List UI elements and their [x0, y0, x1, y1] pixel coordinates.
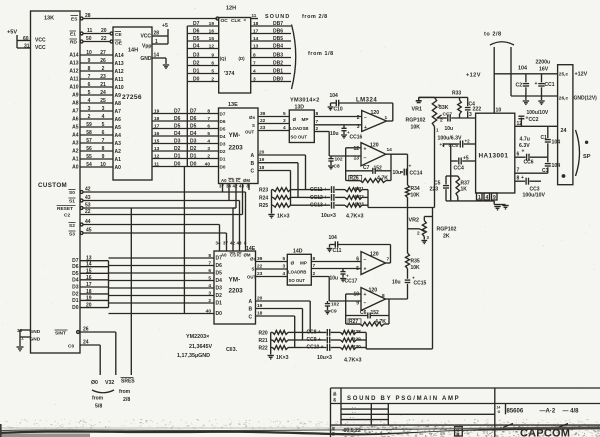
svg-text:R28: R28 — [352, 329, 361, 335]
title small cell A — [455, 427, 463, 437]
svg-text:40: 40 — [206, 309, 212, 315]
svg-text:16: 16 — [209, 29, 215, 35]
svg-text:S: S — [252, 123, 255, 128]
wire C0 pin24 to Phi0 — [68, 340, 100, 376]
svg-text:A0: A0 — [72, 165, 79, 171]
svg-text:58: 58 — [86, 130, 92, 136]
wire YM2203-13E OUT pin23 to YM3014-13D pin4 — [258, 125, 289, 131]
svg-text:22: 22 — [257, 264, 263, 270]
svg-text:R25: R25 — [259, 203, 268, 209]
wire RD pin50 to 27256 OE pin22 — [70, 36, 123, 47]
svg-text:MP: MP — [300, 261, 307, 266]
svg-text:GND: GND — [30, 337, 41, 343]
svg-text:104: 104 — [330, 93, 339, 99]
svg-text:DB0: DB0 — [273, 77, 283, 83]
svg-text:R30: R30 — [352, 344, 361, 350]
svg-text:OE: OE — [115, 41, 123, 47]
svg-text:85606: 85606 — [507, 409, 524, 415]
svg-text:A6: A6 — [115, 117, 122, 123]
wire mixer bus to pin3 rail — [419, 97, 468, 100]
svg-text:+: + — [364, 125, 367, 131]
connector brace to sheet 1/8 — [292, 25, 296, 90]
svg-text:A2: A2 — [72, 149, 79, 155]
svg-text:CC17: CC17 — [345, 279, 358, 285]
scan noise speckle in title strip — [342, 426, 600, 437]
svg-text:D5: D5 — [190, 124, 197, 130]
svg-text:10: 10 — [100, 162, 106, 168]
svg-text:2: 2 — [208, 298, 211, 304]
svg-text:26: 26 — [100, 58, 106, 64]
svg-text:YM-: YM- — [229, 132, 241, 139]
svg-text:R32: R32 — [355, 194, 364, 200]
svg-text:120: 120 — [369, 288, 378, 294]
svg-text:40: 40 — [205, 162, 211, 168]
svg-text:D4: D4 — [193, 44, 200, 50]
svg-text:+2: +2 — [465, 139, 471, 144]
svg-text:39: 39 — [260, 111, 266, 117]
svg-text:LOAD: LOAD — [290, 126, 302, 131]
svg-text:11: 11 — [87, 28, 93, 34]
svg-text:104: 104 — [552, 163, 561, 169]
op-amp U12D-C 120 — [356, 245, 390, 275]
wire data D3 27256 pin 15 to YM2203-13E pin 4 — [152, 139, 219, 145]
svg-text:A11: A11 — [70, 77, 79, 83]
wire SRES vertical to RESET row — [130, 208, 132, 375]
wire YM2203-14E OUT pin23 to YM3014-14D pin4 — [256, 271, 288, 277]
svg-text:14: 14 — [387, 147, 393, 153]
svg-text:A12: A12 — [69, 69, 78, 75]
svg-text:+: + — [409, 165, 412, 170]
resistor R25 1K and capacitor CC13 10u and resistor R33 4.7K mixer row — [259, 202, 368, 210]
wire YM2203-14E pin22 to YM3014-14D pin3 — [256, 264, 288, 270]
svg-text:VCC: VCC — [35, 38, 46, 44]
svg-text:B: B — [251, 161, 255, 167]
node mixer1 right common to VR1 — [368, 190, 435, 208]
svg-text:2: 2 — [102, 66, 105, 72]
capacitor CC2 100u/10V on output — [518, 110, 548, 126]
svg-text:D3: D3 — [190, 139, 197, 145]
wire vertical common left of HA13001 — [450, 144, 452, 201]
note from 2/8 — [302, 14, 328, 20]
svg-text:2: 2 — [88, 114, 91, 120]
svg-text:18: 18 — [257, 311, 263, 317]
svg-text:5: 5 — [211, 69, 214, 75]
svg-text:21,3645V: 21,3645V — [189, 344, 212, 350]
svg-text:4.7u: 4.7u — [520, 137, 530, 143]
svg-text:C6: C6 — [360, 310, 367, 316]
wire data D2 CUSTOM pin 18 to YM2203-14E pin 3 — [72, 289, 222, 299]
svg-text:10u×3: 10u×3 — [317, 355, 332, 361]
svg-text:2/8: 2/8 — [123, 397, 130, 403]
svg-text:1,17,35µGND: 1,17,35µGND — [177, 353, 210, 359]
svg-text:D7: D7 — [193, 21, 200, 27]
svg-text:A0: A0 — [115, 165, 122, 171]
svg-text:25: 25 — [100, 98, 106, 104]
svg-text:4: 4 — [88, 98, 91, 104]
svg-text:39: 39 — [257, 256, 263, 262]
svg-text:名: 名 — [333, 397, 336, 402]
svg-text:5: 5 — [207, 131, 210, 137]
svg-text:+12V: +12V — [466, 73, 481, 79]
svg-text:13D: 13D — [295, 105, 305, 111]
svg-text:A10: A10 — [69, 85, 78, 91]
svg-text:4.7K: 4.7K — [375, 319, 386, 325]
svg-text:Øs: Øs — [249, 115, 256, 120]
svg-text:to 2/8: to 2/8 — [484, 32, 502, 38]
svg-text:SINT: SINT — [55, 331, 66, 337]
svg-text:S2: S2 — [69, 223, 75, 229]
svg-text:102: 102 — [331, 302, 339, 308]
svg-text:6: 6 — [207, 124, 210, 130]
capacitor CC6 4.7u 6.3V on pin6 — [515, 137, 548, 166]
svg-text:A11: A11 — [115, 77, 124, 83]
wire YM3014-13D pin7 to op-amp1 pin3 — [314, 119, 361, 125]
svg-text:Øs: Øs — [250, 257, 257, 262]
svg-text:A2: A2 — [115, 149, 122, 155]
logo CAPCOM — [503, 424, 570, 437]
wire data D4 CUSTOM pin 16 to YM2203-14E pin 5 — [72, 275, 222, 284]
svg-text:C8: C8 — [334, 164, 340, 170]
svg-text:14H: 14H — [128, 48, 138, 54]
svg-text:15: 15 — [154, 139, 160, 145]
svg-text:OC: OC — [221, 18, 229, 24]
potentiometer VR1 RGP102 10K — [406, 97, 444, 207]
wire S1 pin43 control — [69, 184, 240, 252]
svg-text:14E: 14E — [246, 246, 256, 252]
wire data D0 CUSTOM pin 20 to YM2203-14E pin 40 — [72, 303, 222, 317]
svg-text:D3: D3 — [220, 142, 226, 147]
left edge scan mark — [0, 424, 2, 437]
EPROM U14H 27256 box — [113, 27, 152, 180]
svg-text:A0: A0 — [221, 178, 227, 183]
svg-text:R31: R31 — [355, 186, 364, 192]
svg-text:19: 19 — [259, 157, 265, 163]
svg-text:(D): (D) — [239, 56, 246, 61]
svg-text:7: 7 — [102, 138, 105, 144]
wire YM2203-13E channel A pin20 to mixer — [251, 150, 306, 190]
svg-text:8: 8 — [88, 66, 91, 72]
svg-text:A14: A14 — [69, 53, 78, 59]
svg-text:2: 2 — [207, 154, 210, 160]
svg-text:9: 9 — [211, 53, 214, 59]
wire address A8 CUSTOM pin 4 to 27256 pin 25 — [72, 98, 121, 107]
svg-text:13K: 13K — [44, 16, 54, 22]
svg-text:D2: D2 — [220, 149, 226, 154]
svg-text:22: 22 — [85, 209, 91, 215]
svg-text:26,c: 26,c — [559, 96, 569, 102]
svg-text:120: 120 — [371, 110, 380, 116]
svg-text:3: 3 — [102, 106, 105, 112]
svg-text:9: 9 — [88, 58, 91, 64]
svg-text:1: 1 — [478, 195, 481, 201]
wire address A10 CUSTOM pin 6 to 27256 pin 21 — [69, 82, 124, 91]
wire 374 output DB3 pin 8 — [251, 53, 291, 59]
svg-text:43: 43 — [237, 241, 242, 246]
svg-text:152: 152 — [374, 166, 383, 172]
capacitor CC5 100u/6.3V on pin 2 — [438, 136, 476, 150]
capacitor C2 104 decoupling — [516, 66, 530, 97]
svg-text:·8: ·8 — [497, 410, 500, 414]
wire YM3014-14D pin7 to op-amp3 pin5 — [311, 263, 361, 269]
wire YM3014-13D MP pin8 to op-amp1 pin2 — [314, 111, 361, 117]
svg-text:27256: 27256 — [122, 94, 142, 101]
wire address A2 CUSTOM pin 56 to 27256 pin 8 — [72, 146, 121, 155]
svg-text:43: 43 — [85, 195, 91, 201]
svg-text:100u/10V: 100u/10V — [527, 110, 549, 116]
svg-text:10u×3: 10u×3 — [321, 213, 336, 219]
wire C2 pin22 clock to YM PhiM — [64, 184, 249, 219]
resistor R22 1K and capacitor CC10 10u and resistor R30 4.7K mixer2 row — [259, 344, 367, 352]
svg-text:34: 34 — [226, 184, 231, 189]
svg-text:59: 59 — [86, 122, 92, 128]
label YM2203-13E bottom pin numbers 37 34 42 43 8 — [219, 184, 250, 189]
svg-text:14: 14 — [154, 53, 160, 59]
wire address A13 CUSTOM pin 9 to 27256 pin 26 — [69, 58, 124, 67]
svg-text:57: 57 — [86, 138, 92, 144]
svg-text:A7: A7 — [115, 109, 122, 115]
svg-text:6: 6 — [102, 130, 105, 136]
wire bottom rail to HA13001 pin 9 — [446, 200, 494, 202]
wire YM3014-13D SO pin2 to op-amp2 pin13 — [314, 126, 361, 156]
svg-text:8: 8 — [253, 53, 256, 59]
svg-text:43: 43 — [239, 184, 244, 189]
svg-text:4.7K×3: 4.7K×3 — [346, 214, 364, 220]
resistor R21 1K and capacitor CC9 10u and resistor R29 4.7K mixer2 row — [259, 337, 367, 345]
title small revision dots — [350, 405, 356, 420]
net label SOUND header — [265, 14, 290, 20]
svg-text:SRES: SRES — [121, 379, 135, 385]
svg-text:SO OUT: SO OUT — [291, 135, 308, 140]
wire 374 input D3 pin 9 — [187, 53, 218, 59]
svg-text:26: 26 — [83, 327, 89, 333]
svg-text:9: 9 — [356, 301, 359, 307]
svg-text:RGP102: RGP102 — [406, 118, 426, 124]
svg-text:44: 44 — [85, 219, 91, 225]
wire op-amp2 output node vertical — [407, 154, 409, 299]
svg-text:VR1: VR1 — [412, 107, 423, 113]
svg-text:7: 7 — [207, 116, 210, 122]
svg-text:SOUND BY PSG/MAIN AMP: SOUND BY PSG/MAIN AMP — [347, 396, 460, 402]
title block frame — [331, 388, 600, 437]
svg-text:D0: D0 — [216, 311, 223, 317]
feedback network op-amp2 C7 152 and R26 4.7K — [346, 148, 391, 183]
svg-text:19: 19 — [257, 303, 263, 309]
capacitor C5 223 — [430, 176, 458, 201]
svg-text:7: 7 — [208, 261, 211, 267]
svg-text:10u: 10u — [393, 170, 402, 176]
svg-text:D3: D3 — [216, 286, 223, 292]
svg-text:3: 3 — [208, 291, 211, 297]
svg-text:Vpp: Vpp — [142, 44, 151, 50]
svg-text:D1: D1 — [190, 154, 197, 160]
svg-text:34: 34 — [216, 241, 221, 246]
svg-text:33K: 33K — [439, 105, 449, 111]
svg-text:C: C — [251, 169, 255, 175]
wire 374 output DB1 pin 4 — [251, 69, 291, 75]
svg-text:RGP102: RGP102 — [437, 227, 457, 233]
wire YM2203-14E channel B pin19 to mixer2 — [249, 303, 303, 340]
svg-text:ES: ES — [71, 17, 78, 23]
wire YM3014-14D SO pin2 to op-amp4 pin9 — [311, 271, 361, 301]
svg-text:152: 152 — [371, 310, 380, 316]
svg-text:A13: A13 — [115, 61, 124, 67]
svg-text:VCC: VCC — [35, 45, 46, 51]
wire address A1 CUSTOM pin 55 to 27256 pin 9 — [72, 154, 121, 163]
svg-text:6: 6 — [208, 268, 211, 274]
svg-text:6: 6 — [211, 61, 214, 67]
net label GND(12V) at connector pin 26 — [574, 96, 598, 102]
svg-text:4: 4 — [283, 125, 286, 131]
svg-text:14: 14 — [86, 262, 92, 268]
svg-text:IC: IC — [237, 253, 241, 258]
wire address A11 CUSTOM pin 7 to 27256 pin 23 — [70, 74, 124, 83]
svg-text:D5: D5 — [220, 127, 226, 132]
capacitor C3 104 — [542, 157, 560, 174]
svg-text:18: 18 — [259, 165, 265, 171]
svg-text:55: 55 — [86, 154, 92, 160]
power +5 to 27256 VCC pin28 Vpp pin1 — [152, 23, 168, 45]
svg-text:CC15: CC15 — [414, 281, 427, 287]
svg-text:S1: S1 — [69, 199, 75, 205]
svg-text:OUT: OUT — [247, 275, 256, 280]
svg-text:3: 3 — [88, 106, 91, 112]
capacitor CC16 10u on op-amp1 pin3 — [330, 125, 363, 141]
svg-text:100u/10V: 100u/10V — [523, 193, 546, 199]
svg-text:5: 5 — [283, 111, 286, 117]
svg-text:8: 8 — [382, 293, 385, 299]
svg-text:CC2: CC2 — [529, 117, 539, 123]
svg-text:−: − — [364, 301, 367, 307]
svg-text:R29: R29 — [352, 337, 361, 343]
svg-text:4: 4 — [486, 195, 489, 201]
net label Phi0 V32 SRES from other sheets — [91, 378, 135, 410]
svg-text:120: 120 — [370, 143, 379, 149]
svg-text:20: 20 — [257, 296, 263, 302]
svg-text:+: + — [535, 81, 538, 87]
svg-text:Ø: Ø — [293, 117, 297, 123]
wire RESET pin53 control — [57, 184, 237, 252]
svg-text:CC14: CC14 — [410, 171, 423, 177]
svg-text:6.3V: 6.3V — [519, 143, 530, 149]
svg-text:10: 10 — [496, 108, 502, 114]
wire data D7 27256 pin 19 to YM2203-13E pin 8 — [152, 109, 219, 115]
wire 374 output DB2 pin 7 — [251, 61, 291, 67]
svg-text:E1: E1 — [70, 32, 76, 38]
svg-text:120: 120 — [370, 252, 379, 258]
svg-text:10u: 10u — [392, 280, 401, 286]
svg-text:CS: CS — [230, 253, 236, 258]
wire 374 input D4 pin 12 — [187, 44, 218, 50]
svg-text:13: 13 — [154, 146, 160, 152]
svg-text:S3: S3 — [69, 232, 75, 238]
wire 374 output DB5 pin 14 — [251, 36, 291, 42]
wire ground rail under C2 CC1 — [511, 95, 558, 97]
title date 60.5.22 — [331, 426, 361, 436]
svg-text:21: 21 — [100, 82, 106, 88]
ground below C2 — [523, 96, 529, 104]
svg-text:7: 7 — [387, 257, 390, 263]
svg-text:8: 8 — [102, 146, 105, 152]
svg-text:104: 104 — [518, 66, 527, 72]
resistor R24 1K and capacitor CC12 10u and resistor R32 4.7K mixer row — [259, 194, 368, 202]
capacitor CC15 10u — [392, 277, 427, 287]
wire data D4 27256 pin 16 to YM2203-13E pin 5 — [152, 131, 219, 137]
svg-text:3: 3 — [427, 235, 430, 240]
capacitor CC14 10u — [393, 165, 423, 177]
speaker SP symbol — [562, 130, 591, 178]
svg-text:10K: 10K — [411, 265, 421, 271]
svg-text:D1: D1 — [72, 298, 79, 304]
svg-text:1: 1 — [385, 115, 388, 121]
svg-text:CC1: CC1 — [545, 82, 555, 88]
svg-text:5/8: 5/8 — [95, 404, 102, 410]
svg-text:13E: 13E — [228, 102, 238, 108]
svg-text:1K: 1K — [461, 187, 468, 193]
svg-text:R24: R24 — [259, 195, 268, 201]
svg-text:9: 9 — [102, 154, 105, 160]
IC U14E YM2203 FM sound chip box — [214, 246, 257, 324]
capacitor C10 104 — [328, 93, 393, 113]
wire address A0 CUSTOM pin 54 to 27256 pin 10 — [72, 162, 121, 171]
svg-text:GND: GND — [30, 329, 41, 335]
wire address A12 CUSTOM pin 8 to 27256 pin 2 — [69, 66, 124, 75]
svg-text:+5V: +5V — [7, 30, 17, 36]
ground below CC1 — [538, 96, 544, 104]
svg-text:R22: R22 — [259, 346, 268, 352]
label LM324 — [356, 98, 377, 104]
svg-text:D6: D6 — [220, 119, 226, 124]
wire address A9 CUSTOM pin 5 to 27256 pin 24 — [72, 90, 121, 99]
wire HA13001 pin7 — [515, 168, 548, 174]
svg-text:4: 4 — [207, 139, 210, 145]
wire address A5 CUSTOM pin 59 to 27256 pin 5 — [72, 122, 121, 131]
svg-text:S: S — [252, 267, 255, 272]
svg-text:5: 5 — [208, 276, 211, 282]
svg-text:14: 14 — [497, 406, 501, 410]
svg-text:42: 42 — [85, 187, 91, 193]
svg-text:20: 20 — [259, 150, 265, 156]
svg-text:50: 50 — [86, 36, 92, 42]
svg-text:19: 19 — [209, 21, 215, 27]
svg-text:2203: 2203 — [229, 288, 244, 295]
svg-text:CC7: CC7 — [443, 112, 453, 118]
wire main bus vertical right of VR2 — [432, 208, 434, 349]
svg-text:D3: D3 — [193, 53, 200, 59]
svg-text:IC: IC — [236, 178, 240, 183]
wire 374 input D2 pin 6 — [187, 61, 218, 67]
svg-text:A4: A4 — [72, 133, 79, 139]
svg-text:37: 37 — [223, 241, 228, 246]
wire data D1 CUSTOM pin 19 to YM2203-14E pin 2 — [72, 295, 222, 306]
wire address A7 CUSTOM pin 3 to 27256 pin 3 — [72, 106, 121, 115]
svg-text:7: 7 — [88, 74, 91, 80]
svg-text:A1: A1 — [72, 157, 79, 163]
svg-text:YM-: YM- — [229, 277, 241, 284]
capacitor C1 104 bootstrap — [541, 126, 561, 157]
DAC U14D YM3014 box — [287, 249, 311, 286]
capacitor CC3 100u/10V on pin8 — [515, 175, 546, 199]
svg-text:+12V: +12V — [575, 72, 588, 78]
resistor R23 1K and capacitor CC11 10u and resistor R31 4.7K mixer row — [259, 186, 368, 194]
svg-text:102: 102 — [335, 157, 343, 163]
svg-text:A8: A8 — [72, 101, 79, 107]
ground at 27256 GND pin14 — [152, 53, 169, 69]
svg-text:from 1/8: from 1/8 — [308, 51, 334, 57]
svg-text:9: 9 — [493, 195, 496, 201]
potentiometer VR2 RGP102 2K — [408, 217, 457, 244]
svg-text:16: 16 — [86, 275, 92, 281]
svg-text:D7: D7 — [174, 109, 181, 115]
